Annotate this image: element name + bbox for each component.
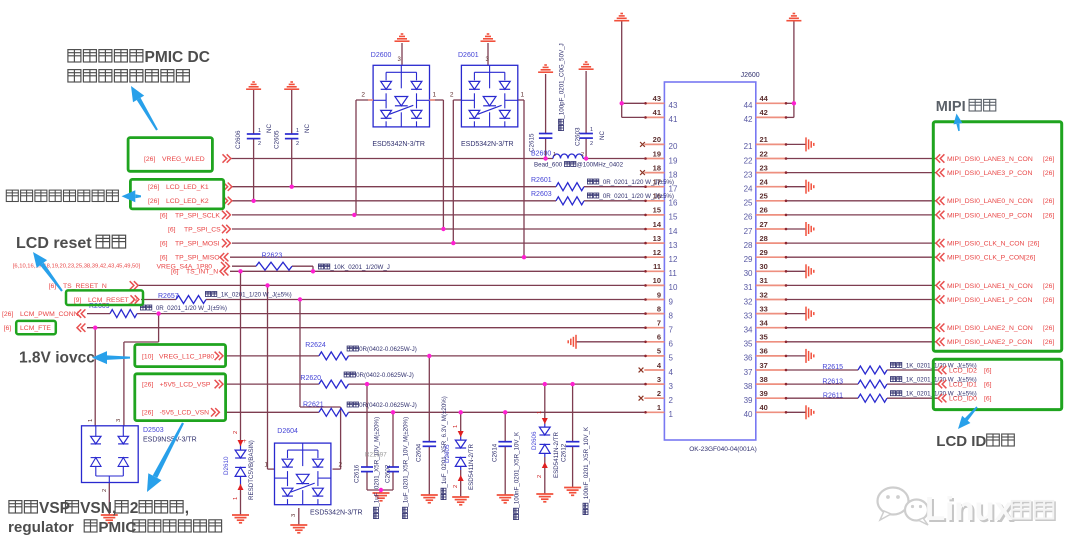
svg-text:[26]: [26] [1043,212,1054,219]
wire pin28 to MIPI_DSI0_CLK_N_CON [786,242,937,244]
svg-text:LCD reset: LCD reset [16,235,92,252]
callout arrow to iovcc text [92,351,130,364]
wire C2603 stem [585,71,587,134]
svg-text:28: 28 [744,241,753,250]
pin 29 stub (right) [756,256,787,258]
wire LCM_PWM_CONN row pin8 [87,313,110,315]
ESD diode D2605 [460,437,462,440]
svg-text:25: 25 [744,199,753,208]
svg-text:MIPI_DSI0_LANE2_N_CON: MIPI_DSI0_LANE2_N_CON [947,325,1033,332]
highlight box LCM_RESET_N [66,290,143,305]
wire LCM_RESET_N row pin9 [141,299,176,301]
svg-text:LCD ID: LCD ID [936,433,986,450]
no-connect shield pin 36 [806,349,814,363]
svg-text:ESD5411N-2/TR: ESD5411N-2/TR [468,444,475,490]
wire D2610 riser TS_INT_N to D2610 [240,271,242,446]
svg-text:TS_INT_N: TS_INT_N [186,269,218,276]
svg-text:2: 2 [657,389,661,398]
svg-text:R2657: R2657 [158,293,179,300]
ESD array D2600 [373,65,429,127]
pin 24 stub (right) [756,186,787,188]
wire pin36 to no-connect [786,355,807,357]
svg-text:10: 10 [669,283,678,292]
wire pin27 to no-connect [786,228,807,230]
svg-text:2: 2 [339,462,343,469]
wire C2604 ground stem [428,446,430,495]
svg-text:6: 6 [669,340,674,349]
svg-text:13: 13 [653,234,661,243]
svg-text:VSN,: VSN, [80,500,116,517]
ground above C2603 [579,62,594,69]
svg-text:5: 5 [669,354,674,363]
resistor R2611 [858,394,887,402]
svg-text:2: 2 [669,396,674,405]
junction [365,382,369,386]
ground below D2503 [101,515,118,523]
wire pin21 to no-connect [786,143,807,145]
junction [792,101,796,105]
svg-text:TP_SPI_SCLK: TP_SPI_SCLK [175,212,220,219]
svg-text:D2610: D2610 [223,456,230,475]
wire pin23 to MIPI_DSI0_LANE3_P_CON [786,172,937,174]
svg-text:3: 3 [116,419,122,422]
svg-text:1: 1 [537,411,543,414]
svg-text:13: 13 [669,241,678,250]
svg-text:MIPI: MIPI [936,99,966,115]
highlight box LCD ID [933,359,1061,409]
svg-text:1: 1 [553,152,556,158]
svg-text:0R(0402-0.0625W-J): 0R(0402-0.0625W-J) [359,402,417,409]
no-connect cross pin 2 [639,396,644,401]
svg-text:VREG_L1C_1P80: VREG_L1C_1P80 [159,353,214,360]
wire D2601 pin3 stem to ground [487,43,489,65]
svg-text:38: 38 [760,375,768,384]
wire C2612 ground stem [572,446,574,487]
wire pin6 to NC shield [576,341,645,343]
pin 42 stub (right) [756,116,787,118]
svg-text:33: 33 [760,304,768,313]
wire LCM_FTE row pin7 [87,327,645,329]
net MIPI_DSI0_LANE0_P_CON [936,211,944,219]
svg-text:21: 21 [744,142,753,151]
svg-text:_1uF_0201_X5R_10V_M(±20%): _1uF_0201_X5R_10V_M(±20%) [374,417,381,508]
svg-text:30: 30 [744,269,753,278]
svg-text:40: 40 [760,403,768,412]
svg-text:39: 39 [744,396,753,405]
svg-text:1: 1 [669,410,674,419]
svg-text:2: 2 [450,92,454,99]
pin 31 stub (right) [756,284,787,286]
svg-text:[6,10,16,17,18,19,20,23,25,38,: [6,10,16,17,18,19,20,23,25,38,39,42,43,4… [13,264,141,270]
svg-text:29: 29 [744,255,753,264]
svg-text:2: 2 [581,152,584,158]
net MIPI_DSI0_LANE2_N_CON [936,324,944,332]
svg-text:+5V5_LCD_VSP: +5V5_LCD_VSP [160,382,211,389]
svg-text:PMIC: PMIC [98,519,136,536]
pin 13 stub (left) [644,242,664,244]
wire C2605 stem down to K1 row [291,90,293,134]
svg-text:[6]: [6] [984,396,992,403]
svg-text:RESDTC5VB(BASIN): RESDTC5VB(BASIN) [248,440,255,500]
stub junction dots [644,102,787,414]
svg-text:MIPI_DSI0_LANE0_P_CON: MIPI_DSI0_LANE0_P_CON [947,212,1032,219]
svg-text:_100nF_0201_X5R_10V_K: _100nF_0201_X5R_10V_K [514,431,521,509]
wire VREG_S4A_1P80 pullup to R2623 [232,265,256,267]
wire C2604 drop from 1P8 row [428,356,430,442]
ESD array D2604 [275,443,331,505]
wire ground rail to pin 44/42 [793,21,795,117]
pin 38 stub (right) [756,383,787,385]
svg-text:R2611: R2611 [823,392,843,399]
svg-text:24: 24 [760,178,769,187]
capacitor C2603 [579,133,593,135]
junction [93,326,97,330]
wire C2602 drop from VSN row [392,412,394,467]
svg-text:2: 2 [453,485,459,488]
svg-text:28: 28 [760,234,768,243]
pin 2 stub (left) [644,397,664,399]
wire TP_SPI_MISO row pin12 [230,256,645,258]
pin 26 stub (right) [756,214,787,216]
svg-text:2: 2 [233,431,239,434]
svg-text:19: 19 [669,156,678,165]
wire TS_RESET_N row pin10 [138,284,645,286]
highlight box VSP VSN [135,374,226,421]
svg-text:0R(0402-0.0625W-J): 0R(0402-0.0625W-J) [359,346,417,353]
junction [265,283,269,287]
wire C2612 drop from VSP row [572,384,574,442]
svg-text:43: 43 [653,94,661,103]
pin 1 stub (left) [644,411,664,413]
wire +5V5_LCD_VSP row pin3 [227,383,319,385]
ground above C2615 [538,65,553,72]
svg-text:11: 11 [669,269,678,278]
wire ground rail to pin 43/41 [621,21,623,117]
svg-text:[26]: [26] [148,184,159,191]
svg-text:22: 22 [744,156,753,165]
svg-text:[26]: [26] [1043,156,1054,163]
svg-text:12: 12 [653,248,661,257]
svg-text:[26]: [26] [1043,198,1054,205]
pin 36 stub (right) [756,355,787,357]
svg-text:3: 3 [669,382,674,391]
svg-text:34: 34 [744,326,753,335]
wire pin33 to no-connect [786,313,807,315]
svg-text:5: 5 [657,347,661,356]
svg-text:9: 9 [669,297,674,306]
pin 28 stub (right) [756,242,787,244]
wire -5V5_LCD_VSN row pin1 [227,411,319,413]
wire pin22 to MIPI_DSI0_LANE3_N_CON [786,158,937,160]
svg-text:C2603: C2603 [575,127,582,146]
svg-text:[26]: [26] [1043,325,1054,332]
pin 5 stub (left) [644,355,664,357]
pin 6 stub (left) [644,341,664,343]
wire D2606 ground stem [544,457,546,494]
svg-text:[10]: [10] [142,353,153,360]
wire VREG_L1C_1P80 row pin5 [227,355,319,357]
ESD array D2601 [461,65,517,127]
net MIPI_DSI0_LANE3_N_CON [936,154,944,162]
svg-text:@100MHz_0402: @100MHz_0402 [577,162,624,169]
highlight box VREG_L1C_1P80 [135,345,226,367]
svg-text:_1uF_0201_X5R_6.3V_M(±20%): _1uF_0201_X5R_6.3V_M(±20%) [441,396,448,488]
svg-text:[26]: [26] [1028,241,1039,248]
svg-text:D2601: D2601 [458,52,479,59]
junction [522,255,526,259]
svg-text:24: 24 [744,185,753,194]
svg-text:Linux: Linux [925,490,1014,527]
svg-text:27: 27 [760,220,768,229]
svg-text:LCM_FTE: LCM_FTE [20,325,51,332]
pin 23 stub (right) [756,172,787,174]
resistor R2657 [176,296,206,304]
junction [427,354,431,358]
net MIPI_DSI0_LANE1_P_CON [936,295,944,303]
svg-text:NC: NC [304,123,311,133]
pin 8 stub (left) [644,313,664,315]
svg-text:1: 1 [296,128,299,134]
junction [503,410,507,414]
svg-text:LCM_PWM_CONN: LCM_PWM_CONN [20,311,79,318]
svg-text:10: 10 [653,276,661,285]
svg-text:R2621: R2621 [303,402,324,409]
svg-text:LCM_RESET_N: LCM_RESET_N [88,297,138,304]
callout arrow to backlight text [131,86,158,131]
junction [543,156,547,160]
svg-text:[6]: [6] [984,367,992,374]
svg-text:31: 31 [760,276,768,285]
ground below C2616 C2602 [373,493,390,501]
highlight box LCM_FTE [16,321,56,334]
svg-text:2: 2 [361,92,365,99]
svg-text:2: 2 [258,141,261,147]
resistor R2620 [319,380,349,388]
svg-text:NC: NC [599,130,606,140]
svg-text:LCD_LED_K1: LCD_LED_K1 [166,184,209,191]
svg-text:_10K_0201_1/20W_J: _10K_0201_1/20W_J [329,264,390,271]
svg-text:[26]: [26] [144,156,155,163]
svg-text:20: 20 [669,142,678,151]
no-connect shield pin 27 [806,222,814,236]
no-connect shield pin 33 [806,307,814,321]
svg-text:18: 18 [653,163,661,172]
svg-text:3: 3 [657,375,661,384]
net MIPI_DSI0_LANE3_P_CON [936,168,944,176]
pin 17 stub (left) [644,186,664,188]
ground below D2606 [536,494,553,502]
svg-text:[26]: [26] [1043,339,1054,346]
callout arrow LCD ID [958,406,978,429]
resistor R2624 [319,352,349,360]
svg-text:[6]: [6] [160,255,168,262]
junction [620,101,624,105]
svg-text:ESD5342N-3/TR: ESD5342N-3/TR [372,141,425,148]
svg-text:LCD_ID0: LCD_ID0 [949,396,977,403]
callout arrow to negative text [122,190,142,202]
svg-text:3: 3 [291,514,297,517]
svg-text:R21697: R21697 [365,452,387,459]
wire pin39 to R2611 to LCD_ID0 [786,397,859,399]
wire D2601 pin1 drop to MISO row [518,99,524,101]
svg-text:2: 2 [537,475,543,478]
wire pin37 to R2615 to LCD_ID2 [786,369,859,371]
svg-text:32: 32 [760,290,768,299]
svg-text:40: 40 [744,410,753,419]
resistor R2613 [858,380,887,388]
svg-text:20: 20 [653,135,661,144]
net LCD_ID2 [938,366,946,374]
svg-text:1.8V iovcc: 1.8V iovcc [19,350,95,367]
svg-text:J2600: J2600 [741,72,760,79]
svg-text:_1K_0201_1/20 W_J(±5%): _1K_0201_1/20 W_J(±5%) [216,292,291,299]
svg-text:42: 42 [744,115,753,124]
svg-text:R2624: R2624 [305,342,326,349]
svg-text:[26]: [26] [1043,283,1054,290]
wire C2615 stem [545,74,547,134]
svg-text:D2606: D2606 [531,431,538,450]
svg-text:1: 1 [453,425,459,428]
svg-text:TP_SPI_MOSI: TP_SPI_MOSI [175,241,220,248]
svg-text:21: 21 [760,135,768,144]
svg-text:MIPI_DSI0_LANE2_P_CON: MIPI_DSI0_LANE2_P_CON [947,339,1032,346]
annotation backlight negative text [6,190,18,201]
svg-text:C2606: C2606 [235,130,242,149]
wire pin31 to MIPI_DSI0_LANE1_N_CON [786,284,937,286]
junction [379,488,383,492]
pin 27 stub (right) [756,228,787,230]
wire C2616 C2602 ground join [366,472,368,490]
svg-text:25: 25 [760,192,768,201]
pin 12 stub (left) [644,256,664,258]
svg-text:[6]: [6] [171,269,179,276]
ground below D2604 [290,525,307,533]
svg-text:[26]: [26] [142,382,153,389]
svg-text:[6]: [6] [160,212,168,219]
pin 21 stub (right) [756,143,787,145]
svg-text:22: 22 [760,149,768,158]
wire LCD_LED_K1 row pin17 [232,186,556,188]
svg-text:regulator: regulator [8,519,74,536]
svg-text:9: 9 [657,290,661,299]
wire pin29 to MIPI_DSI0_CLK_P_CON [786,256,937,258]
junction [311,269,315,273]
capacitor C2614 [498,441,512,443]
pin 14 stub (left) [644,228,664,230]
svg-text:D2605: D2605 [444,444,451,463]
svg-text:_0R_0201_1/20 W_J(±5%): _0R_0201_1/20 W_J(±5%) [598,179,674,186]
pin 15 stub (left) [644,214,664,216]
wire LCD_LED_K2 row pin16 [232,200,556,202]
junction [156,311,160,315]
junction [570,382,574,386]
pin 4 stub (left) [644,369,664,371]
pin 19 stub (left) [644,158,664,160]
wire C2614 ground stem [504,446,506,495]
ground above D2600 [395,34,410,41]
wire pin35 to MIPI_DSI0_LANE2_P_CON [786,341,937,343]
resistor R2609 [110,310,137,318]
pin 43 stub (left) [644,102,664,104]
svg-text:36: 36 [744,354,753,363]
svg-text:C2614: C2614 [492,443,499,462]
svg-text:R2615: R2615 [822,364,843,371]
svg-text:D2600: D2600 [371,52,392,59]
svg-text:OK-23GF040-04(001A): OK-23GF040-04(001A) [689,446,757,453]
wire pin32 to MIPI_DSI0_LANE1_P_CON [786,299,937,301]
svg-text:15: 15 [653,206,661,215]
resistor R2623 [256,262,292,270]
callout arrow MIPI [954,114,963,132]
pin 11 stub (left) [644,270,664,272]
svg-text:R2601: R2601 [531,177,552,184]
highlight box MIPI signals [933,122,1061,352]
svg-text:ESD5342N-3/TR: ESD5342N-3/TR [461,141,514,148]
junction [352,213,356,217]
svg-text:[26]: [26] [2,311,13,318]
capacitor C2605 [285,133,299,135]
svg-text:,: , [185,500,189,517]
pin 20 stub (left) [644,143,664,145]
svg-text:1: 1 [657,403,661,412]
svg-text:C2602: C2602 [385,464,392,483]
svg-text:29: 29 [760,248,768,257]
no-connect cross pin 18 [640,170,645,175]
no-connect shield pin 24 [806,180,814,194]
svg-text:1: 1 [88,419,94,422]
net MIPI_DSI0_LANE1_N_CON [936,281,944,289]
annotation bias VSP VSN text [9,501,22,513]
svg-text:33: 33 [744,311,753,320]
wire VREG_WLED row pin19 [231,158,553,160]
svg-text:14: 14 [669,227,678,236]
wire D2605 drop from VSN row [460,412,462,437]
svg-text:R2613: R2613 [822,378,843,385]
ESD diode D2606 [544,424,546,427]
svg-text:8: 8 [657,304,661,313]
no-connect shield pin 21 [806,137,814,151]
svg-text:26: 26 [760,206,768,215]
svg-text:12: 12 [669,255,678,264]
connector J2600 body [664,82,755,440]
svg-text:[26]: [26] [1024,255,1035,262]
svg-text:43: 43 [669,101,678,110]
svg-text:C2615: C2615 [529,133,536,152]
junction [238,269,242,273]
svg-text:44: 44 [744,101,753,110]
wire TP_SPI_MOSI row pin13 [232,242,645,244]
pin 33 stub (right) [756,313,787,315]
ground below D2605 [452,497,469,505]
ground top rail right (pins 44/42) [786,14,801,21]
pin 32 stub (right) [756,299,787,301]
svg-text:0R(0402-0.0625W-J): 0R(0402-0.0625W-J) [356,372,414,379]
svg-text:15: 15 [669,213,678,222]
svg-text:_1uF_0201_X5R_10V_M(±20%): _1uF_0201_X5R_10V_M(±20%) [403,417,410,508]
svg-text:41: 41 [653,108,661,117]
highlight box LCD_LED_K1 K2 [130,179,223,209]
svg-text:31: 31 [744,283,753,292]
wire C2614 drop from VSN row [504,412,506,441]
svg-text:[9]: [9] [74,297,82,304]
wire LCM_FTE to D2503 pin1 drop [94,328,96,427]
watermark wechat icon [878,488,929,526]
svg-text:[26]: [26] [1043,297,1054,304]
svg-text:[26]: [26] [142,410,153,417]
pin 10 stub (left) [644,284,664,286]
wire pin26 to MIPI_DSI0_LANE0_P_CON [786,214,937,216]
svg-text:7: 7 [669,326,674,335]
